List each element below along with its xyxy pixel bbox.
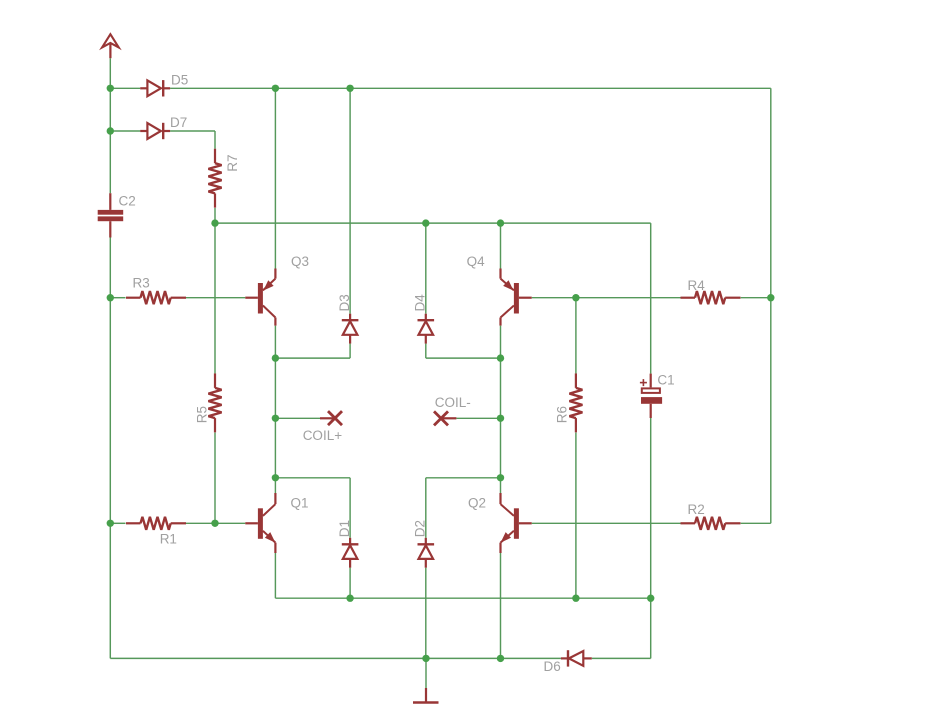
junction J21	[647, 595, 654, 602]
junction J8	[422, 219, 429, 226]
diode D5	[140, 72, 188, 96]
wire R2 to right rail	[741, 522, 771, 524]
svg-text:Q2: Q2	[468, 496, 486, 511]
wire R7 bottom to node	[214, 208, 216, 223]
wire R6 bottom lead	[575, 433, 577, 599]
svg-text:R3: R3	[133, 275, 150, 290]
resistor R5	[195, 373, 222, 432]
junction J5	[272, 85, 279, 92]
svg-text:COIL+: COIL+	[303, 428, 343, 443]
svg-text:R1: R1	[160, 531, 177, 546]
svg-text:D7: D7	[170, 115, 187, 130]
junction J3	[107, 294, 114, 301]
resistor R4	[681, 278, 741, 304]
wire D6 to corner	[592, 657, 651, 659]
svg-text:Q4: Q4	[467, 254, 486, 269]
diode D7	[140, 115, 187, 139]
capacitor C2	[98, 193, 136, 237]
junction J12	[272, 354, 279, 361]
wire Q2 emitter rail	[500, 553, 502, 658]
junction J15	[497, 415, 504, 422]
transistor Q2	[468, 493, 532, 553]
resistor R7	[208, 149, 239, 208]
svg-text:R2: R2	[688, 502, 705, 517]
wire R3 to Q3	[186, 297, 246, 299]
diode D3	[337, 294, 359, 343]
wire D4 top lead	[425, 223, 427, 314]
wire COIL- stub	[456, 417, 500, 419]
wire left rail to C2	[109, 131, 111, 193]
svg-text:D2: D2	[413, 520, 428, 537]
wire Q4 emitter lead	[500, 223, 502, 268]
wire top rail left of D5	[110, 87, 140, 89]
junction J9	[497, 219, 504, 226]
svg-text:D4: D4	[413, 294, 428, 312]
wire ground stub	[425, 658, 427, 688]
svg-text:D5: D5	[171, 72, 188, 87]
wire D1 top lead	[349, 478, 351, 538]
diode D6	[544, 650, 592, 674]
wire Q3 collector rail	[274, 326, 276, 478]
svg-text:Q1: Q1	[291, 496, 309, 511]
svg-text:R4: R4	[688, 278, 706, 293]
wire top rail right of D5	[170, 87, 771, 89]
junction J6	[346, 85, 353, 92]
node COIL+	[303, 411, 343, 443]
wire Q4 collector rail	[500, 326, 502, 478]
wire C1 branch down	[650, 223, 652, 374]
wire R1 left	[110, 522, 125, 524]
diode D1	[337, 520, 359, 568]
junction J20	[572, 595, 579, 602]
svg-text:COIL-: COIL-	[435, 395, 471, 410]
svg-text:D1: D1	[337, 520, 352, 537]
wire R6 top lead	[575, 298, 577, 374]
wire R1 to Q1	[186, 522, 246, 524]
node COIL-	[434, 395, 471, 426]
junction J11	[767, 294, 774, 301]
wire bottom rail	[110, 657, 561, 659]
wire D7 to R7 corner	[170, 130, 215, 132]
wire D4 bottom lead	[425, 344, 427, 359]
diode D2	[413, 520, 435, 568]
wire Q1 emitter rail	[274, 553, 276, 598]
wire bottom mid rail y598	[275, 597, 650, 599]
wire node row 358 left	[275, 357, 350, 359]
wire Q4 base to R4	[532, 297, 681, 299]
resistor R3	[126, 275, 186, 304]
resistor R1	[126, 517, 186, 547]
svg-text:C1: C1	[657, 373, 674, 388]
wire D2 top lead	[425, 478, 427, 538]
svg-text:D3: D3	[337, 294, 352, 311]
junction J10	[572, 294, 579, 301]
svg-text:R6: R6	[555, 406, 570, 423]
junction J2	[107, 127, 114, 134]
diode D4	[413, 294, 435, 344]
wire left rail upper	[109, 88, 111, 131]
junction J22	[422, 655, 429, 662]
wire D1 bottom lead	[349, 568, 351, 599]
wire Q1 collector lead	[274, 478, 276, 493]
capacitor C1	[640, 373, 675, 418]
svg-text:Q3: Q3	[291, 254, 309, 269]
svg-text:R7: R7	[225, 155, 240, 172]
wire Q3 emitter rail	[274, 88, 276, 268]
junction J13	[497, 354, 504, 361]
wire VCC lead	[109, 58, 111, 88]
wire right rail upper	[770, 88, 772, 297]
wire right rail lower	[770, 298, 772, 524]
wire C1 bottom rail	[650, 418, 652, 598]
junction J1	[107, 85, 114, 92]
wire corner up to y598	[650, 598, 652, 658]
resistor R6	[555, 373, 583, 432]
transistor Q4	[467, 254, 532, 326]
wire row 478 left	[275, 477, 350, 479]
svg-text:R5: R5	[195, 406, 210, 423]
resistor R2	[681, 502, 741, 530]
junction J16	[272, 474, 279, 481]
wire R5 branch upper	[214, 223, 216, 373]
junction J4	[107, 520, 114, 527]
wire R3 left	[110, 297, 125, 299]
wire R5 branch lower	[214, 433, 216, 524]
junction J18	[211, 520, 218, 527]
wire D7 left	[110, 130, 140, 132]
junction J23	[497, 655, 504, 662]
wire row 478 right	[426, 477, 501, 479]
wire node row 358 right	[426, 357, 501, 359]
wire Q2 base to R2	[532, 522, 681, 524]
svg-text:C2: C2	[119, 194, 136, 209]
junction J7	[211, 219, 218, 226]
junction J19	[346, 595, 353, 602]
svg-text:D6: D6	[544, 659, 561, 674]
transistor Q3	[245, 254, 309, 326]
ground	[413, 688, 439, 703]
wire D3 bottom lead	[349, 344, 351, 359]
wire D2 to bottom rail	[425, 568, 427, 659]
wire D3 top rail	[349, 88, 351, 313]
wire R4 to right rail	[741, 297, 771, 299]
wire COIL+ stub	[275, 417, 320, 419]
wire Q2 collector lead	[500, 478, 502, 493]
wire mid rail y223	[215, 222, 651, 224]
wire left rail below C2	[109, 238, 111, 659]
transistor Q1	[245, 493, 308, 553]
junction J14	[272, 415, 279, 422]
wire R7 top lead	[214, 131, 216, 149]
power arrow VCC	[102, 34, 119, 58]
junction J17	[497, 474, 504, 481]
